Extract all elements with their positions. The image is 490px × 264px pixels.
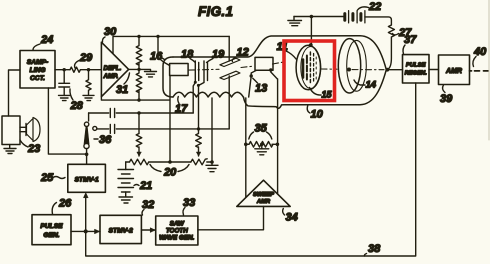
svg-text:24: 24 bbox=[40, 34, 53, 46]
resistor chain lower bbox=[136, 69, 142, 100]
svg-text:REGEN.: REGEN. bbox=[405, 71, 428, 77]
battery 22 bbox=[345, 11, 365, 23]
grid 18 lead bbox=[193, 81, 197, 113]
wire saw gen to sweep amp bbox=[198, 206, 264, 229]
svg-text:SAMP-: SAMP- bbox=[27, 59, 49, 66]
sawtooth generator box 33 bbox=[156, 216, 198, 245]
svg-text:14: 14 bbox=[366, 80, 377, 91]
node grid column on bottom line bbox=[197, 127, 200, 130]
monostable STMV-1 box 25 bbox=[68, 164, 106, 192]
beam axis dash-dot bbox=[189, 62, 337, 70]
label 10 bbox=[307, 105, 323, 120]
label 27 bbox=[393, 27, 413, 39]
svg-text:15: 15 bbox=[322, 90, 333, 100]
ground under C28 bbox=[59, 95, 71, 100]
grid 19 strokes bbox=[204, 61, 208, 82]
svg-text:PULSE: PULSE bbox=[406, 63, 427, 69]
svg-text:WAVE GEN.: WAVE GEN. bbox=[159, 235, 194, 242]
cathode ground column right bbox=[206, 98, 218, 172]
svg-text:AMP.: AMP. bbox=[103, 73, 119, 80]
label 40 bbox=[473, 46, 487, 67]
wire coupling bottom capacitor line bbox=[97, 128, 229, 130]
svg-text:CCT.: CCT. bbox=[30, 75, 45, 82]
pulse regenerator box 37 bbox=[403, 55, 430, 83]
grid 18 strokes bbox=[195, 61, 198, 82]
node bottom rail / pot column bbox=[137, 98, 140, 101]
node below R27 bbox=[385, 68, 389, 72]
wire coupling top capacitor line bbox=[89, 112, 194, 114]
title FIG.1 bbox=[198, 4, 233, 19]
label 29 bbox=[75, 52, 94, 68]
svg-text:36: 36 bbox=[99, 134, 112, 146]
sweep output wire left bbox=[245, 98, 247, 197]
resistor to ground after R29 bbox=[86, 70, 91, 96]
svg-text:37: 37 bbox=[404, 34, 417, 46]
svg-text:29: 29 bbox=[79, 52, 93, 64]
svg-text:20: 20 bbox=[163, 167, 177, 179]
label 28 bbox=[70, 89, 84, 112]
svg-text:PULSE: PULSE bbox=[40, 223, 63, 230]
label 30 bbox=[102, 26, 117, 42]
svg-text:26: 26 bbox=[58, 198, 72, 210]
label 36 bbox=[94, 134, 112, 146]
svg-text:13: 13 bbox=[255, 83, 267, 95]
arrow into saw gen bbox=[150, 228, 155, 233]
wire HT to target bbox=[309, 17, 313, 47]
wire battery to resistor 27 bbox=[365, 17, 392, 25]
switch 36 bbox=[84, 113, 97, 154]
label 35 bbox=[249, 123, 272, 140]
node electrode 17 column on wiper rail bbox=[168, 160, 172, 164]
svg-text:34: 34 bbox=[286, 212, 298, 224]
label 24 bbox=[33, 34, 53, 50]
wiper arrow right bbox=[196, 152, 200, 156]
svg-text:SAW: SAW bbox=[170, 221, 185, 228]
electrode 17 box bbox=[170, 64, 189, 76]
node stmv1 top junction bbox=[85, 153, 89, 157]
svg-text:18: 18 bbox=[181, 49, 194, 61]
wire top rail from amp bbox=[113, 36, 229, 53]
grid 19 lead bbox=[197, 83, 204, 129]
label 21 bbox=[134, 180, 152, 192]
svg-text:23: 23 bbox=[27, 143, 40, 155]
resistor R29 bbox=[70, 67, 80, 72]
label 13 bbox=[253, 78, 267, 94]
node trigger junction bbox=[84, 229, 88, 233]
deflection plates 12 bbox=[220, 58, 240, 79]
svg-text:22: 22 bbox=[368, 1, 381, 13]
node rail to gun lead bbox=[156, 35, 159, 38]
node right end wiper rail bbox=[210, 160, 214, 164]
label 12 bbox=[232, 47, 249, 62]
right edge scan line bbox=[488, 0, 490, 140]
wire sampler bottom to stmv1 junction bbox=[48, 88, 86, 154]
svg-text:38: 38 bbox=[368, 243, 381, 255]
cathode lead into gun bbox=[158, 36, 170, 65]
output dashes bbox=[470, 70, 489, 72]
ground tap right of chain bbox=[139, 69, 157, 77]
svg-text:STMV-2: STMV-2 bbox=[109, 228, 134, 235]
capacitor C28 bbox=[59, 70, 70, 96]
wire pulse gen to stmv2 bbox=[71, 230, 100, 232]
node at capacitor 28 tap bbox=[62, 68, 65, 71]
wire pulse regen to amp bbox=[429, 69, 439, 71]
arrow into stmv2 bbox=[95, 229, 100, 234]
svg-text:35: 35 bbox=[255, 123, 268, 135]
wire bottom rail from amp bbox=[101, 97, 169, 100]
svg-text:AMR: AMR bbox=[445, 68, 462, 75]
label 37 bbox=[403, 34, 417, 54]
svg-text:AMR: AMR bbox=[256, 199, 271, 205]
svg-text:21: 21 bbox=[139, 180, 152, 192]
op-amp U30 DEFL AMP bbox=[101, 42, 128, 96]
amplifier box 39 bbox=[439, 55, 470, 85]
svg-text:GEN.: GEN. bbox=[43, 232, 59, 239]
box 13 leads bbox=[249, 68, 278, 97]
label 38 bbox=[364, 243, 381, 256]
potentiometer column right (pot 20b) bbox=[196, 129, 202, 156]
svg-text:19: 19 bbox=[212, 49, 225, 61]
storage target ellipse 15 bbox=[296, 45, 321, 90]
label 32 bbox=[142, 199, 154, 215]
wire sampling output bbox=[55, 69, 101, 71]
battery 21 bbox=[118, 162, 134, 203]
transducer 23 bbox=[2, 116, 40, 145]
node pot column on top line bbox=[137, 111, 140, 114]
svg-text:LING: LING bbox=[30, 67, 46, 74]
wiper arrow left bbox=[137, 152, 141, 156]
label 14 bbox=[354, 80, 377, 91]
target bar pattern bbox=[303, 52, 316, 83]
capacitor in top line bbox=[110, 109, 114, 118]
ground under transducer bbox=[4, 145, 16, 154]
svg-text:16: 16 bbox=[150, 51, 163, 63]
label 16 bbox=[150, 51, 165, 63]
svg-text:DEFL.: DEFL. bbox=[104, 65, 122, 72]
svg-text:10: 10 bbox=[311, 109, 324, 121]
anode box 13 bbox=[255, 57, 273, 70]
collector disk 14 bbox=[338, 39, 366, 93]
label 34 bbox=[283, 209, 298, 224]
svg-text:39: 39 bbox=[440, 93, 453, 105]
label 26 bbox=[52, 198, 72, 215]
svg-text:SWEEP: SWEEP bbox=[253, 192, 274, 198]
svg-text:40: 40 bbox=[473, 46, 487, 58]
label 25 bbox=[40, 172, 65, 184]
monostable STMV-2 box 32 bbox=[100, 215, 141, 243]
label 23 bbox=[20, 140, 40, 155]
label 20 bbox=[150, 165, 189, 179]
bottom plate lead bbox=[228, 76, 230, 129]
node after R29 bbox=[87, 68, 90, 71]
node chain top bbox=[137, 35, 140, 38]
label 19 bbox=[207, 49, 226, 63]
label 18 bbox=[181, 49, 195, 63]
label 11 bbox=[277, 41, 297, 60]
pulse generator box 26 bbox=[32, 215, 71, 245]
ground top bbox=[288, 17, 302, 26]
svg-text:TOOTH: TOOTH bbox=[166, 228, 188, 235]
red highlight box bbox=[284, 41, 335, 101]
label 39 bbox=[440, 85, 453, 105]
wire apex to chain bbox=[129, 68, 141, 71]
resistor R35 bbox=[246, 142, 278, 148]
wiper rail with resistors 20 bbox=[126, 159, 212, 165]
ground under that resistor bbox=[83, 95, 94, 100]
sampling circuit box 24 bbox=[20, 51, 55, 89]
ground below R35 center bbox=[255, 144, 269, 155]
svg-text:31: 31 bbox=[116, 84, 128, 96]
capacitor in bottom line bbox=[110, 124, 114, 133]
svg-text:17: 17 bbox=[175, 103, 188, 115]
label 17 bbox=[175, 97, 188, 116]
wire tube output to pulse regen bbox=[386, 69, 402, 71]
svg-text:STMV-1: STMV-1 bbox=[74, 177, 99, 184]
svg-text:25: 25 bbox=[40, 172, 54, 184]
svg-text:28: 28 bbox=[70, 100, 84, 112]
wire stmv2 to saw gen bbox=[141, 229, 155, 231]
op-amp sweep amplifier 34 bbox=[237, 180, 290, 206]
wire top HT rail bbox=[294, 15, 344, 19]
wire pulse regen bottom to rail 38 bbox=[86, 83, 416, 256]
top plate lead bbox=[228, 36, 230, 61]
tube envelope 10 bbox=[163, 36, 386, 108]
potentiometer column left (pot 20a) bbox=[136, 113, 142, 156]
wire sampling box to transducer bbox=[9, 70, 21, 116]
resistor R27 bbox=[388, 25, 395, 70]
label 33 bbox=[183, 197, 195, 215]
svg-text:FIG.1: FIG.1 bbox=[198, 4, 233, 19]
sweep output wire right bbox=[277, 79, 279, 194]
collector output dash-dot bbox=[352, 69, 384, 71]
resistor chain upper (feedback) bbox=[136, 36, 142, 69]
wire junction up to stmv1 with arrow bbox=[83, 193, 88, 232]
label 31 bbox=[116, 73, 130, 96]
wire junction into STMV-1 bbox=[86, 154, 88, 164]
label 22 bbox=[358, 1, 382, 13]
nodes at R35 ends bbox=[244, 143, 279, 147]
label 15 bbox=[310, 88, 333, 100]
svg-text:12: 12 bbox=[237, 47, 249, 59]
electrode 17 column bbox=[169, 76, 171, 163]
